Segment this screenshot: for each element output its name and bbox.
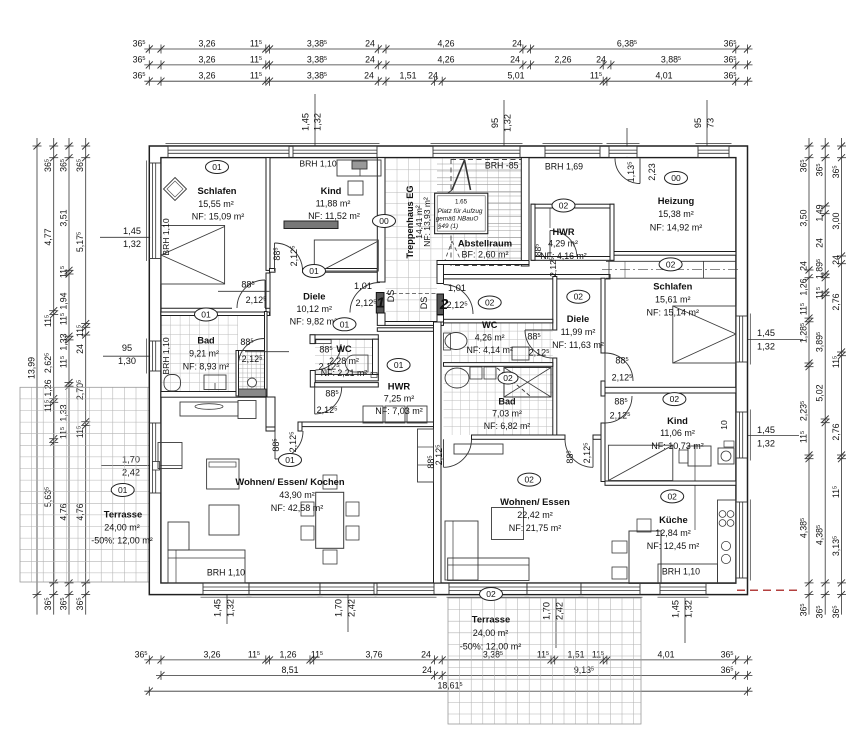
svg-text:NF: 7,03 m²: NF: 7,03 m² [375, 406, 423, 416]
svg-text:24: 24 [421, 649, 431, 659]
svg-text:01: 01 [340, 319, 350, 329]
svg-text:Platz für Aufzug: Platz für Aufzug [438, 208, 483, 215]
svg-text:24: 24 [365, 54, 375, 64]
svg-text:Bad: Bad [498, 397, 515, 407]
svg-text:NF: 15,09 m²: NF: 15,09 m² [192, 212, 245, 222]
svg-text:10,12 m²: 10,12 m² [297, 304, 333, 314]
svg-text:95: 95 [122, 343, 132, 353]
svg-text:2,23: 2,23 [647, 163, 657, 181]
svg-text:95: 95 [490, 118, 500, 128]
svg-text:Kind: Kind [321, 185, 342, 196]
svg-text:NF: 11,52 m²: NF: 11,52 m² [308, 211, 360, 221]
svg-text:DS: DS [386, 290, 396, 303]
svg-text:3,26: 3,26 [203, 649, 220, 659]
svg-text:24: 24 [596, 54, 606, 64]
svg-text:00: 00 [379, 216, 389, 226]
svg-text:1,45: 1,45 [671, 600, 681, 618]
svg-text:2,42: 2,42 [122, 468, 140, 478]
svg-text:2,26: 2,26 [554, 54, 571, 64]
svg-text:15,55 m²: 15,55 m² [198, 199, 234, 209]
svg-text:00: 00 [671, 173, 681, 183]
svg-text:24: 24 [364, 71, 374, 81]
svg-text:HWR: HWR [553, 227, 575, 237]
svg-text:Küche: Küche [659, 514, 688, 525]
svg-text:10: 10 [719, 420, 729, 430]
svg-text:-50%: 12,00 m²: -50%: 12,00 m² [91, 536, 153, 546]
svg-text:NF: 9,82 m²: NF: 9,82 m² [290, 317, 338, 327]
svg-text:4,76: 4,76 [58, 503, 68, 520]
svg-text:12,84 m²: 12,84 m² [655, 528, 691, 538]
svg-text:11,99 m²: 11,99 m² [561, 327, 596, 337]
svg-text:BRH -85: BRH -85 [485, 161, 519, 171]
svg-text:Schlafen: Schlafen [197, 185, 236, 196]
svg-text:5,02: 5,02 [815, 384, 825, 401]
svg-text:02: 02 [485, 298, 495, 308]
svg-text:5,01: 5,01 [507, 71, 524, 81]
svg-text:1,49: 1,49 [815, 204, 825, 221]
svg-text:4,77: 4,77 [43, 228, 53, 245]
svg-text:3,26: 3,26 [198, 71, 215, 81]
svg-text:BRH 1,69: BRH 1,69 [545, 162, 583, 172]
svg-text:1,32: 1,32 [757, 342, 775, 352]
svg-text:3,50: 3,50 [798, 209, 808, 226]
svg-text:BRH 1,10: BRH 1,10 [662, 567, 700, 577]
svg-text:24: 24 [512, 38, 522, 48]
svg-text:02: 02 [670, 394, 680, 404]
svg-text:1,26: 1,26 [279, 649, 296, 659]
svg-text:02: 02 [574, 292, 584, 302]
svg-text:BRH 1,10: BRH 1,10 [161, 337, 171, 374]
svg-text:1,45: 1,45 [301, 113, 311, 131]
svg-text:1,51: 1,51 [567, 649, 584, 659]
svg-text:Schlafen: Schlafen [653, 281, 692, 292]
svg-text:15,61 m²: 15,61 m² [655, 295, 691, 305]
svg-text:NF: 12,45 m²: NF: 12,45 m² [647, 541, 700, 551]
svg-text:Terrasse: Terrasse [104, 509, 142, 520]
svg-text:1,32: 1,32 [123, 239, 141, 249]
svg-text:24: 24 [510, 54, 520, 64]
svg-text:1,94: 1,94 [58, 292, 68, 309]
svg-text:24: 24 [428, 71, 438, 81]
svg-text:Bad: Bad [197, 336, 214, 346]
svg-text:§49 (1): §49 (1) [437, 223, 458, 230]
svg-text:1,32: 1,32 [226, 599, 236, 617]
svg-text:1,30: 1,30 [118, 356, 136, 366]
svg-text:95: 95 [693, 118, 703, 128]
svg-text:4,01: 4,01 [657, 649, 674, 659]
svg-text:11,06 m²: 11,06 m² [660, 428, 695, 438]
svg-text:BRH 1,10: BRH 1,10 [207, 568, 245, 578]
svg-text:NF: 11,63 m²: NF: 11,63 m² [552, 340, 604, 350]
svg-text:1,26: 1,26 [43, 379, 53, 396]
svg-text:3,51: 3,51 [58, 209, 68, 226]
svg-text:1.65: 1.65 [455, 199, 468, 206]
svg-text:1,32: 1,32 [313, 113, 323, 131]
svg-text:73: 73 [706, 118, 716, 128]
svg-text:1,45: 1,45 [757, 328, 775, 338]
svg-text:02: 02 [486, 589, 496, 599]
svg-text:NF: 4,16 m²: NF: 4,16 m² [540, 251, 587, 261]
svg-text:24: 24 [365, 38, 375, 48]
svg-text:1,01: 1,01 [448, 283, 466, 293]
svg-text:7,25 m²: 7,25 m² [384, 394, 415, 404]
svg-text:18,615: 18,615 [437, 681, 462, 691]
svg-text:1,45: 1,45 [757, 425, 775, 435]
svg-text:3,26: 3,26 [198, 54, 215, 64]
svg-text:Wohnen/ Essen/ Kochen: Wohnen/ Essen/ Kochen [235, 476, 344, 487]
svg-text:1,33: 1,33 [58, 404, 68, 421]
svg-text:02: 02 [503, 373, 513, 383]
svg-text:4,26: 4,26 [437, 38, 454, 48]
svg-text:3,00: 3,00 [831, 212, 841, 229]
svg-text:1,01: 1,01 [354, 281, 372, 291]
svg-text:BRH 1,10: BRH 1,10 [299, 159, 336, 169]
svg-text:15,38 m²: 15,38 m² [658, 209, 694, 219]
svg-text:7,03 m²: 7,03 m² [492, 409, 522, 419]
svg-text:WC: WC [336, 344, 352, 354]
svg-text:1,70: 1,70 [334, 599, 344, 617]
svg-text:24: 24 [798, 261, 808, 271]
svg-text:4,29 m²: 4,29 m² [548, 239, 578, 249]
svg-text:13,99: 13,99 [26, 357, 36, 379]
svg-text:24,00 m²: 24,00 m² [473, 628, 509, 638]
svg-text:02: 02 [524, 475, 534, 485]
svg-text:4,76: 4,76 [75, 503, 85, 520]
svg-text:3,26: 3,26 [198, 38, 215, 48]
svg-text:4,26 m²: 4,26 m² [475, 333, 505, 343]
svg-text:1,70: 1,70 [122, 455, 140, 465]
svg-text:02: 02 [559, 201, 569, 211]
svg-text:NF: 10,73 m²: NF: 10,73 m² [651, 441, 704, 451]
svg-text:Kind: Kind [667, 415, 688, 426]
svg-text:Diele: Diele [303, 291, 325, 302]
svg-text:NF: 6,82 m²: NF: 6,82 m² [484, 421, 531, 431]
svg-text:3,76: 3,76 [365, 649, 382, 659]
svg-text:01: 01 [212, 162, 222, 172]
svg-text:01: 01 [118, 485, 128, 495]
svg-text:NF: 8,93 m²: NF: 8,93 m² [183, 361, 230, 371]
svg-text:24: 24 [815, 238, 825, 248]
svg-text:Diele: Diele [567, 313, 589, 324]
svg-text:1,45: 1,45 [123, 226, 141, 236]
svg-text:1,26: 1,26 [798, 278, 808, 295]
svg-text:11,88 m²: 11,88 m² [316, 199, 351, 209]
svg-text:1,32: 1,32 [503, 114, 513, 132]
svg-text:24: 24 [422, 665, 432, 675]
svg-text:NF: 42,58 m²: NF: 42,58 m² [271, 503, 324, 513]
svg-text:-50%: 12,00 m²: -50%: 12,00 m² [460, 642, 522, 652]
svg-text:2,76: 2,76 [831, 293, 841, 310]
svg-text:1,32: 1,32 [757, 439, 775, 449]
svg-text:24: 24 [75, 344, 85, 354]
svg-text:Terrasse: Terrasse [472, 614, 510, 625]
svg-text:NF: 13,93 m²: NF: 13,93 m² [422, 197, 432, 247]
svg-text:WC: WC [482, 320, 498, 330]
svg-text:01: 01 [201, 310, 211, 320]
svg-text:1: 1 [376, 295, 384, 312]
svg-text:BF: 2,60 m²: BF: 2,60 m² [461, 250, 508, 260]
svg-text:8,51: 8,51 [281, 665, 298, 675]
svg-text:2,42: 2,42 [347, 599, 357, 617]
svg-text:2: 2 [439, 296, 449, 313]
svg-text:01: 01 [309, 266, 319, 276]
svg-text:02: 02 [667, 491, 677, 501]
svg-text:NF: 4,14 m²: NF: 4,14 m² [466, 345, 513, 355]
svg-text:1,51: 1,51 [399, 71, 416, 81]
svg-text:2,42: 2,42 [555, 602, 565, 620]
svg-text:1,32: 1,32 [684, 600, 694, 618]
svg-text:4,01: 4,01 [655, 71, 672, 81]
svg-text:NF: 14,92 m²: NF: 14,92 m² [650, 223, 703, 233]
svg-text:9,21 m²: 9,21 m² [189, 349, 219, 359]
svg-text:2,76: 2,76 [831, 423, 841, 440]
svg-text:1,45: 1,45 [213, 599, 223, 617]
svg-text:BRH 1,10: BRH 1,10 [161, 218, 171, 255]
svg-text:NF: 15,14 m²: NF: 15,14 m² [647, 308, 700, 318]
svg-text:DS: DS [419, 297, 429, 310]
svg-text:Heizung: Heizung [658, 195, 695, 206]
svg-text:24: 24 [831, 255, 841, 265]
svg-text:4,26: 4,26 [437, 54, 454, 64]
svg-text:Abstellraum: Abstellraum [458, 238, 512, 249]
svg-text:1,70: 1,70 [542, 602, 552, 620]
svg-text:02: 02 [666, 259, 676, 269]
svg-text:43,90 m²: 43,90 m² [279, 490, 315, 500]
svg-text:HWR: HWR [388, 381, 411, 392]
svg-text:24,00 m²: 24,00 m² [104, 523, 140, 533]
svg-text:22,42 m²: 22,42 m² [517, 510, 553, 520]
svg-text:gemäß NBauO: gemäß NBauO [436, 216, 479, 223]
svg-text:01: 01 [285, 455, 295, 465]
svg-text:Wohnen/ Essen: Wohnen/ Essen [500, 496, 570, 507]
svg-text:NF: 21,75 m²: NF: 21,75 m² [509, 523, 562, 533]
svg-text:1,33: 1,33 [58, 333, 68, 350]
svg-text:01: 01 [394, 360, 404, 370]
